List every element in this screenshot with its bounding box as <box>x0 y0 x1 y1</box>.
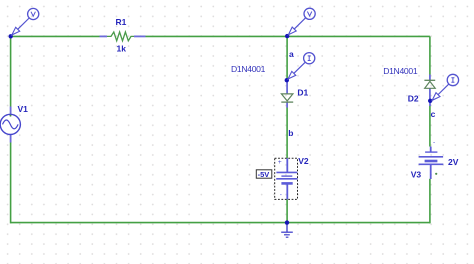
svg-text:-: - <box>280 191 282 198</box>
wire middle vertical top <box>286 36 288 79</box>
svg-text:1k: 1k <box>117 43 127 53</box>
svg-text:-5V: -5V <box>258 170 270 179</box>
wire top right horizontal <box>146 35 430 37</box>
junction top-middle node <box>285 34 289 38</box>
battery V3 <box>419 139 444 179</box>
svg-text:2V: 2V <box>448 157 459 167</box>
voltage source V2 <box>276 158 297 199</box>
junction top-left node <box>9 34 13 38</box>
svg-text:a: a <box>289 49 294 59</box>
junction right branch probe node <box>428 99 432 103</box>
svg-text:-: - <box>433 139 435 146</box>
wire right vertical middle <box>429 106 431 147</box>
svg-text:V3: V3 <box>411 170 422 180</box>
junction middle branch probe node <box>285 78 289 82</box>
diode D1 <box>281 80 293 107</box>
svg-text:D1: D1 <box>297 88 308 98</box>
svg-text:V1: V1 <box>18 104 29 114</box>
wire left vertical upper <box>10 36 12 107</box>
svg-text:D1N4001: D1N4001 <box>231 64 266 74</box>
wire top left horizontal <box>11 35 100 37</box>
svg-text:b: b <box>288 128 293 138</box>
wire middle vertical between D1 and V2 <box>286 107 288 158</box>
svg-text:R1: R1 <box>116 17 127 27</box>
svg-text:V2: V2 <box>298 156 309 166</box>
current probe on middle branch <box>288 53 315 79</box>
diode D2 <box>424 75 435 101</box>
current probe on right branch <box>432 74 458 100</box>
svg-text:D2: D2 <box>408 94 419 104</box>
voltage source V1 <box>0 107 20 143</box>
junction bottom-middle node <box>285 220 289 224</box>
wire left vertical lower <box>10 143 12 224</box>
wire right vertical upper <box>429 36 431 74</box>
resistor R1 <box>100 32 146 41</box>
wire bottom horizontal <box>11 222 430 224</box>
wire middle vertical below V2 <box>286 199 288 222</box>
ground <box>281 223 293 238</box>
svg-text:+: + <box>278 159 282 166</box>
lead D2 to wire <box>429 101 431 106</box>
svg-text:D1N4001: D1N4001 <box>383 66 418 76</box>
voltage probe at top-left node <box>12 8 39 35</box>
svg-text:c: c <box>431 109 436 119</box>
wire right vertical lower <box>429 179 431 224</box>
value label -5V boxed <box>256 170 272 179</box>
voltage probe at top-middle node <box>288 8 315 35</box>
voltage source V2 selection box <box>275 158 298 199</box>
